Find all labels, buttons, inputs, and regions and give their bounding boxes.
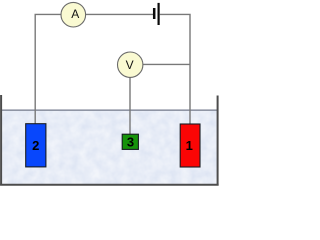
svg-text:1: 1 (186, 138, 193, 153)
wire: ammeter to battery negative terminal (86, 13, 153, 15)
battery positive terminal (long plate) (158, 3, 160, 25)
wire: voltmeter right to junction on right vertical wire (143, 63, 190, 65)
beaker bottom (0, 184, 219, 186)
electrode 1 (working, red) (180, 124, 200, 167)
ammeter A (61, 2, 86, 27)
svg-text:V: V (126, 58, 134, 72)
wire: left corner from ammeter down to electrode 2 (35, 14, 61, 124)
battery negative terminal (short plate) (153, 8, 156, 19)
electrode 3 (reference, green) (122, 134, 138, 149)
svg-text:3: 3 (127, 135, 134, 150)
svg-text:2: 2 (32, 138, 39, 153)
electrode 2 (counter, blue) (26, 124, 46, 167)
wire: voltmeter bottom down to electrode 3 (129, 77, 131, 134)
electrolyte solution (2, 110, 217, 185)
voltmeter V (118, 52, 143, 77)
wire: battery positive to right corner down to electrode 1 (160, 14, 190, 124)
svg-text:A: A (71, 7, 79, 21)
beaker left wall (0, 95, 2, 186)
solution surface line (2, 109, 218, 111)
beaker right wall (217, 96, 219, 186)
